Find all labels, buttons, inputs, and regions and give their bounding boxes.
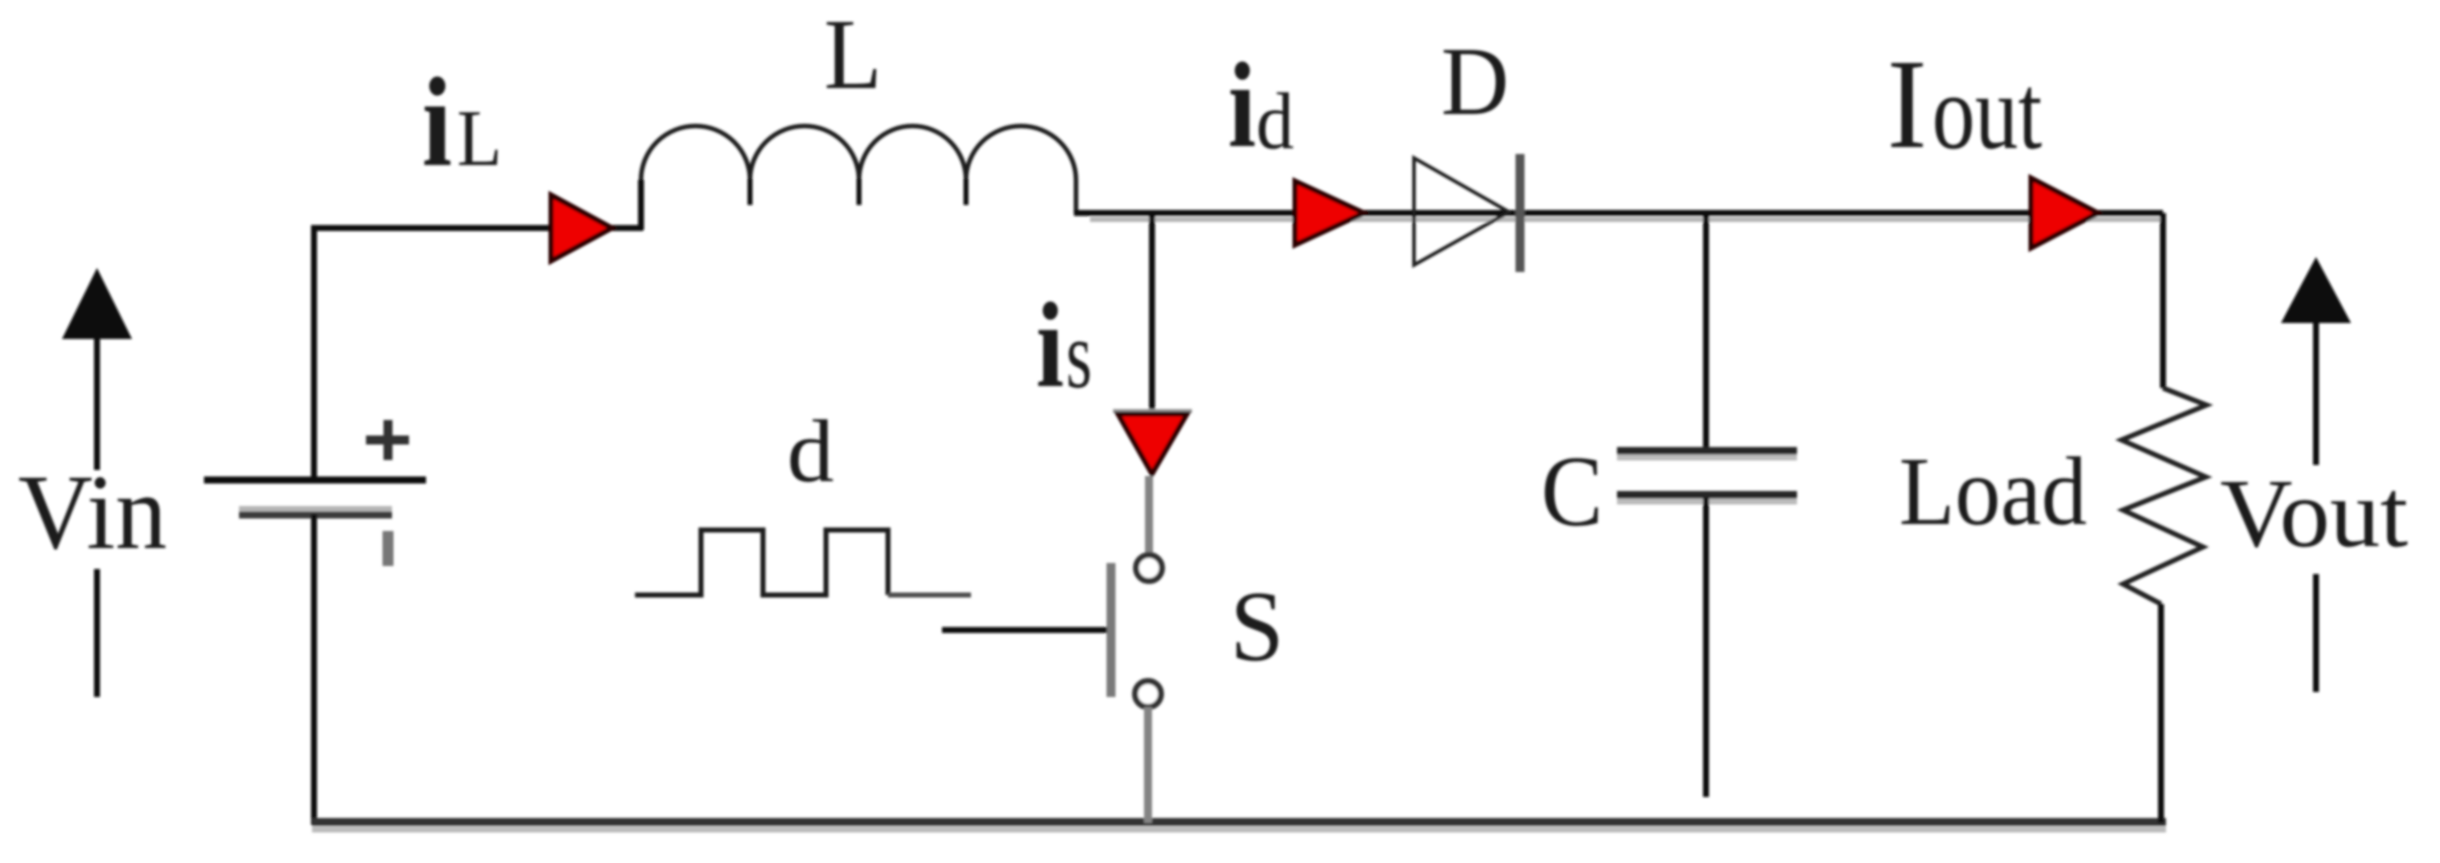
svg-text:d: d <box>787 403 834 501</box>
switch upper lead <box>1145 476 1153 554</box>
Vout arrow stem lower <box>2313 574 2319 692</box>
svg-text:Vout: Vout <box>2220 460 2408 568</box>
current arrow iL <box>551 195 612 261</box>
switch lower lead <box>1144 707 1152 823</box>
svg-text:Vin: Vin <box>18 454 167 572</box>
svg-text:S: S <box>1230 570 1284 682</box>
battery plus sign <box>366 420 409 460</box>
current arrow Iout <box>2031 178 2098 248</box>
battery long plate <box>204 477 426 484</box>
svg-text:out: out <box>1932 54 2042 172</box>
battery minus tick <box>383 531 394 566</box>
diode D cathode bar <box>1516 154 1525 272</box>
svg-text:i: i <box>1036 278 1064 413</box>
svg-text:D: D <box>1441 28 1509 136</box>
switch gate bar <box>1107 563 1116 697</box>
svg-text:L: L <box>824 0 882 110</box>
node A riser into inductor <box>638 180 644 230</box>
svg-text:s: s <box>1066 301 1092 408</box>
switch S bottom contact circle <box>1135 681 1161 707</box>
wire top-left horizontal from source to inductor <box>312 225 643 231</box>
wire shadow under main top <box>1090 217 2160 222</box>
svg-text:d: d <box>1256 78 1294 166</box>
diode D triangle <box>1414 158 1509 265</box>
Vin arrow stem lower <box>94 569 100 697</box>
capacitor top plate fringe <box>1617 455 1797 461</box>
battery short plate <box>239 512 392 519</box>
current arrow id <box>1295 181 1364 245</box>
voltage source Vin battery: left branch upper <box>311 225 317 481</box>
svg-text:i: i <box>422 53 452 193</box>
svg-text:Load: Load <box>1899 438 2087 546</box>
current arrow is base fringe <box>1113 409 1192 413</box>
gate waveform tail <box>888 593 971 598</box>
svg-text:C: C <box>1541 435 1603 547</box>
bottom wire light fringe <box>312 827 2166 833</box>
gate drive waveform d <box>635 530 888 595</box>
inductor cusp tail 1 <box>748 179 753 205</box>
inductor cusp tail 2 <box>857 179 862 205</box>
capacitor bottom plate fringe <box>1617 499 1797 505</box>
svg-text:L: L <box>457 93 502 183</box>
wire main top horizontal (node to load corner) <box>1074 210 2163 216</box>
capacitor top plate <box>1617 447 1797 455</box>
Vin arrow stem upper <box>94 336 100 470</box>
capacitor C top lead <box>1703 213 1709 450</box>
load branch top lead <box>2160 213 2166 388</box>
inductor cusp tail 3 <box>964 179 969 205</box>
inductor L coil <box>641 126 1076 214</box>
battery short plate light fringe <box>239 506 392 512</box>
current arrow is <box>1118 414 1187 474</box>
svg-text:i: i <box>1228 38 1256 173</box>
Vin arrow head <box>62 268 132 339</box>
bottom wire <box>312 818 2166 826</box>
switch gate lead <box>942 627 1107 633</box>
capacitor bottom lead <box>1703 498 1709 797</box>
Vout arrow head <box>2281 257 2351 323</box>
resistor Load zigzag <box>2122 388 2207 604</box>
svg-text:I: I <box>1887 33 1927 175</box>
Vout arrow stem upper <box>2313 320 2319 465</box>
switch branch upper wire <box>1149 213 1155 414</box>
left branch lower <box>311 514 317 825</box>
load branch bottom lead <box>2158 604 2164 823</box>
capacitor bottom plate <box>1617 491 1797 499</box>
switch S top contact circle <box>1136 555 1162 581</box>
